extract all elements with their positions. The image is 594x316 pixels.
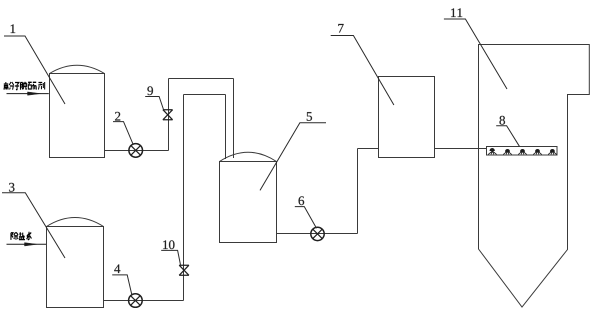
tank 3 dome — [47, 218, 104, 227]
pipe into box 7 — [358, 148, 379, 150]
label 1 — [11, 24, 16, 33]
tank 5 dome — [220, 152, 277, 161]
box 7 — [379, 77, 435, 158]
label 5 leader — [260, 123, 326, 191]
label 7 — [338, 24, 343, 33]
inlet text "除盐水" (hand-drawn glyphs) — [11, 232, 31, 240]
riser pipe A with valve 9 — [168, 79, 170, 151]
脱 — [20, 82, 26, 90]
分 — [9, 82, 14, 90]
pump 2 — [129, 144, 143, 158]
label 10 — [163, 240, 168, 249]
pipe tank3 outlet to riser B — [104, 300, 184, 302]
label 10 leader — [161, 250, 180, 264]
inlet arrow into tank 1 — [7, 92, 49, 95]
label 11 — [451, 8, 456, 17]
label 4 leader — [112, 275, 132, 295]
label 3 leader — [2, 193, 65, 258]
除 — [11, 232, 18, 240]
pump 6 — [311, 227, 324, 240]
硫 — [28, 82, 37, 89]
tank 1 — [50, 74, 105, 158]
label 1 leader — [4, 36, 65, 104]
inlet text "高分子脱硫剂" (hand-drawn glyphs) — [4, 82, 45, 90]
label 5 — [307, 112, 312, 121]
水 — [27, 232, 32, 240]
pipe A down-leg into tank 5 — [233, 79, 235, 159]
riser C up to box 7 level — [357, 149, 359, 234]
pipe B down-leg into tank 5 — [225, 95, 227, 160]
label 4 — [114, 264, 120, 273]
label 6 — [299, 196, 305, 205]
label 9 leader — [145, 97, 163, 110]
pipe tank1 outlet to riser A — [105, 150, 169, 152]
label 11 leader — [444, 19, 507, 89]
tank 5 — [220, 162, 277, 243]
label 7 leader — [331, 36, 394, 106]
valve 9 — [163, 110, 173, 120]
pump 4 — [129, 294, 143, 308]
spray nozzles — [488, 148, 556, 154]
label 8 — [499, 116, 505, 125]
label 2 leader — [113, 122, 133, 145]
pipe tank5 outlet to riser C — [277, 233, 358, 235]
label 9 — [147, 86, 153, 95]
tank 1 dome — [50, 65, 105, 73]
riser pipe B with valve 10 — [183, 95, 185, 301]
盐 — [19, 232, 25, 239]
tank 3 — [47, 227, 104, 308]
高 — [4, 82, 9, 90]
子 — [15, 83, 19, 90]
pipe box7 to spray bar — [435, 148, 487, 150]
pipe B top horizontal — [184, 94, 226, 96]
剂 — [38, 82, 44, 90]
valve 10 — [179, 265, 189, 275]
spray bar 8 — [487, 147, 558, 156]
label 8 leader — [496, 126, 519, 147]
label 2 — [115, 112, 120, 121]
pipe A top horizontal — [169, 78, 234, 80]
furnace 11 outline — [479, 45, 590, 308]
label 6 leader — [295, 207, 317, 229]
label 3 — [9, 183, 14, 192]
inlet arrow into tank 3 — [7, 243, 47, 246]
